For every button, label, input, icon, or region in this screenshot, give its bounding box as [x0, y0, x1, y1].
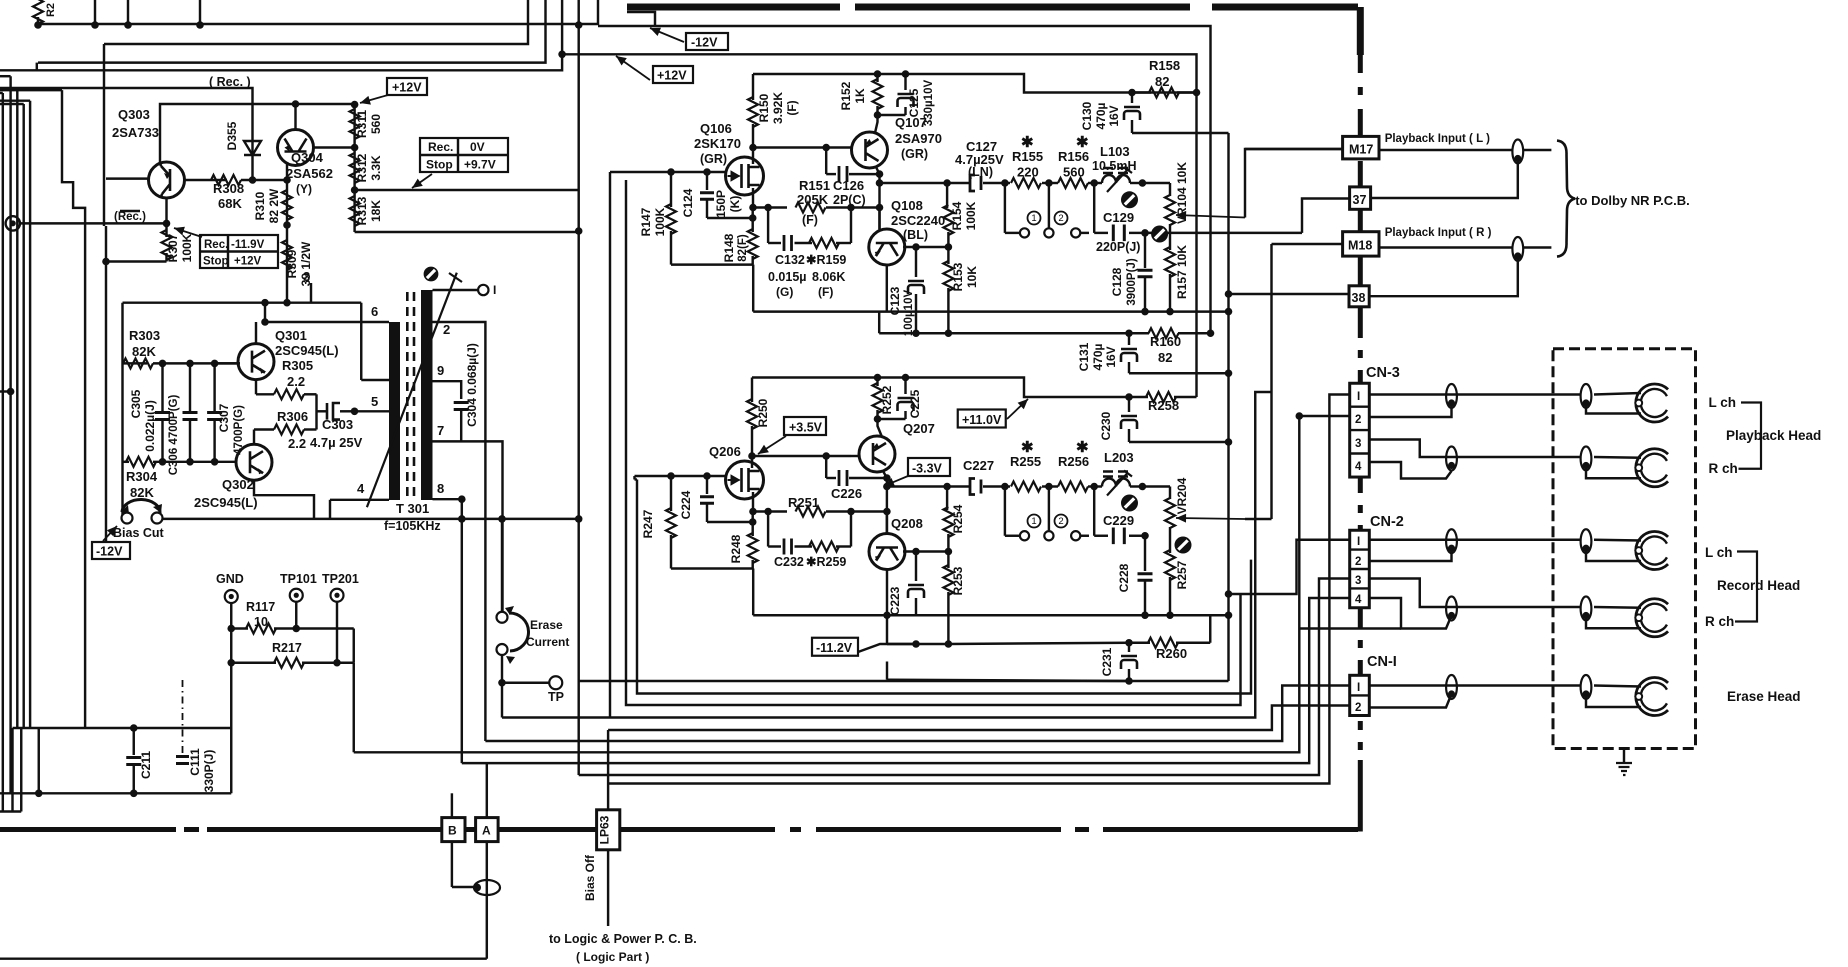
- bracket record: [1735, 552, 1757, 622]
- svg-text:Erase Head: Erase Head: [1727, 689, 1801, 704]
- arrow +12V: [616, 56, 650, 80]
- svg-text:M18: M18: [1348, 239, 1372, 253]
- resistor R148 82(F): [751, 208, 753, 233]
- svg-text:1: 1: [1031, 516, 1036, 527]
- node dot Q301 collector column: [261, 299, 269, 307]
- resistor R305 2.2: [256, 393, 274, 395]
- svg-text:R160: R160: [1150, 334, 1181, 349]
- wire A column: [486, 769, 488, 818]
- wire head lower lead from inner shield: [1586, 694, 1641, 707]
- svg-text:VR204: VR204: [1175, 477, 1189, 514]
- input terminal ring: [6, 216, 20, 230]
- svg-text:( Logic Part ): ( Logic Part ): [576, 950, 649, 964]
- svg-text:2SA733: 2SA733: [112, 125, 159, 140]
- svg-text:R309: R309: [285, 249, 299, 278]
- oval terminal: [474, 880, 500, 895]
- svg-text:R150: R150: [757, 93, 771, 122]
- svg-text:Stop: Stop: [426, 158, 453, 172]
- wire R313 bottom to bias column: [355, 231, 579, 233]
- vertical x104/x106: [103, 44, 105, 226]
- wire L203 to VR204: [1142, 485, 1170, 487]
- resistor R258: [1129, 396, 1148, 398]
- shield ellipse inner: [1581, 597, 1592, 621]
- wire Q108 collector down: [886, 265, 888, 312]
- resistor R254: [946, 487, 948, 511]
- resistor R158 82: [1132, 91, 1151, 93]
- svg-text:Record Head: Record Head: [1717, 578, 1800, 593]
- svg-text:C228: C228: [1117, 563, 1131, 592]
- arrow from table to stop node: [412, 174, 432, 188]
- wire C130 bottom to right column: [1132, 132, 1229, 134]
- svg-text:to Logic & Power P. C. B.: to Logic & Power P. C. B.: [549, 932, 697, 946]
- transformer T301 left bar: [389, 322, 400, 500]
- svg-text:R147: R147: [639, 207, 653, 236]
- wire Q302 collector to R306: [253, 430, 255, 445]
- wire CN-2 pin1 left feed: [1229, 540, 1350, 594]
- arrow +11.0V: [1007, 399, 1028, 419]
- svg-text:R252: R252: [880, 385, 894, 414]
- svg-text:3: 3: [1355, 575, 1361, 587]
- resistor R253: [947, 552, 949, 569]
- wire R260 node line: [886, 662, 888, 680]
- svg-text:-11.9V: -11.9V: [231, 239, 265, 251]
- node dot on left vertical: [7, 388, 15, 396]
- wire head lower lead from inner shield: [1586, 548, 1641, 561]
- svg-text:R151: R151: [799, 178, 830, 193]
- svg-text:10.5mH: 10.5mH: [1092, 159, 1136, 173]
- svg-text:R258: R258: [1148, 398, 1179, 413]
- shield ellipse outer: [1446, 529, 1457, 553]
- svg-text:C126: C126: [833, 178, 864, 193]
- svg-text:10K: 10K: [965, 266, 979, 288]
- wire vertical x579 (bias line): [577, 0, 579, 775]
- svg-text:470µ: 470µ: [1091, 343, 1105, 370]
- wire CN-1 pin2 to shield: [1369, 694, 1451, 708]
- svg-text:Q106: Q106: [700, 121, 732, 136]
- label -12V box (amp): [686, 33, 728, 50]
- capacitor C226: [825, 456, 827, 478]
- svg-text:100K: 100K: [180, 233, 194, 262]
- svg-text:220P(J): 220P(J): [1096, 240, 1140, 254]
- wire head upper lead: [1594, 393, 1641, 395]
- svg-text:+12V: +12V: [657, 69, 687, 83]
- wire R117/R217 right link: [353, 629, 355, 663]
- svg-text:Erase: Erase: [530, 618, 563, 632]
- svg-text:R158: R158: [1149, 58, 1180, 73]
- shield ellipse outer: [1446, 384, 1457, 408]
- wire 38 right return: [1369, 256, 1518, 296]
- svg-text:CN-I: CN-I: [1367, 654, 1397, 670]
- svg-text:C226: C226: [831, 486, 862, 501]
- capacitor C305 0.022u(J): [161, 363, 163, 412]
- wire record R return: [1369, 598, 1451, 629]
- wire T301 pin4 line: [330, 499, 389, 501]
- svg-text:(LN): (LN): [968, 165, 993, 179]
- resistor R248: [751, 512, 753, 537]
- svg-text:2: 2: [1058, 516, 1063, 527]
- resistor R151: [753, 206, 787, 208]
- svg-text:L203: L203: [1104, 450, 1134, 465]
- svg-text:(BL): (BL): [903, 228, 928, 242]
- svg-text:1: 1: [1031, 213, 1036, 224]
- svg-text:L ch: L ch: [1705, 545, 1733, 560]
- svg-text:2SC945(L): 2SC945(L): [275, 343, 339, 358]
- resistor R217: [231, 662, 276, 664]
- svg-text:2SA970: 2SA970: [895, 131, 942, 146]
- wire M18 right to Dolby: [1379, 246, 1551, 248]
- ground symbol under heads box: [1623, 749, 1625, 764]
- resistor R250: [751, 378, 753, 403]
- svg-text:2SC2240: 2SC2240: [891, 213, 945, 228]
- svg-text:TP201: TP201: [322, 572, 359, 586]
- connector 37: [1350, 187, 1371, 209]
- label +11.0V box: [958, 410, 1006, 428]
- capacitor C126 2P(C): [825, 148, 827, 175]
- wire Q206 gate line: [635, 475, 726, 477]
- resistor R252: [876, 378, 878, 387]
- svg-text:150P: 150P: [714, 190, 728, 218]
- resistor R154 100K: [946, 183, 948, 208]
- wire Q206 source down: [752, 492, 754, 512]
- svg-text:16V: 16V: [1104, 346, 1118, 367]
- resistor R255 220: [1005, 485, 1010, 487]
- ground bus corner up to CN column: [1358, 762, 1363, 832]
- wire left vertical bundle: [9, 76, 11, 793]
- svg-text:Playback Input ( L ): Playback Input ( L ): [1385, 133, 1490, 145]
- wire left staircase: [62, 90, 85, 728]
- svg-text:R117: R117: [246, 600, 275, 614]
- arrow -12V to bias cut: [103, 526, 117, 541]
- transformer T301 right bar: [421, 290, 433, 500]
- svg-text:C304 0.068µ(J): C304 0.068µ(J): [465, 343, 479, 427]
- svg-text:R304: R304: [126, 469, 158, 484]
- svg-text:2: 2: [443, 322, 450, 337]
- shield ellipse inner: [1581, 529, 1592, 553]
- wire bundle line 8: [462, 598, 1350, 763]
- record head L channel: [1635, 532, 1668, 570]
- svg-text:C130: C130: [1080, 101, 1094, 130]
- wire Q303 emitter down: [165, 198, 167, 223]
- connector A: [476, 818, 499, 842]
- shield ellipse L: [1512, 140, 1523, 164]
- capacitor C304 0.068u(J): [454, 403, 469, 410]
- circled 2: [1055, 212, 1068, 225]
- connector CN-1: [1350, 675, 1370, 715]
- screw symbol amp2 b: [1175, 537, 1192, 554]
- svg-text:C129: C129: [1103, 210, 1134, 225]
- wire TP201 down: [336, 602, 338, 663]
- wire stop node to bias column: [355, 189, 579, 191]
- svg-text:R257: R257: [1175, 560, 1189, 589]
- svg-text:R153: R153: [951, 262, 965, 291]
- wire Q208 base down: [886, 512, 888, 535]
- svg-text:+9.7V: +9.7V: [464, 158, 496, 172]
- svg-text:R305: R305: [282, 358, 313, 373]
- wire pin8 bias continues: [462, 518, 579, 520]
- wire head upper lead: [1594, 606, 1641, 609]
- svg-text:Q206: Q206: [709, 444, 741, 459]
- svg-text:R156: R156: [1058, 149, 1089, 164]
- wire record L return to CN-2 pin2: [1369, 548, 1451, 561]
- arrow +3.5V: [758, 436, 786, 454]
- inductor L203: [1094, 485, 1102, 487]
- wire VR104 wiper to M17: [1245, 149, 1343, 218]
- transistor Q107 2SA970: [852, 132, 888, 168]
- capacitor C228: [1144, 536, 1146, 571]
- capacitor C123 100u10V: [915, 247, 917, 277]
- wire bottom node y793: [0, 792, 231, 794]
- svg-text:R254: R254: [951, 504, 965, 533]
- wire stubs to top edge: [94, 0, 96, 25]
- svg-text:2SA562: 2SA562: [286, 166, 333, 181]
- wire Q107 base: [851, 146, 853, 148]
- svg-text:A: A: [482, 824, 491, 838]
- svg-text:3: 3: [1355, 438, 1361, 450]
- brace to Dolby: [1557, 141, 1575, 257]
- wire Q301 collector: [255, 322, 257, 344]
- wire Q208 collector down: [886, 570, 888, 645]
- capacitor C124 150P(K): [706, 172, 708, 190]
- wire C129 to 37-box net: [1145, 232, 1302, 234]
- svg-text:+11.0V: +11.0V: [962, 413, 1002, 427]
- resistor R147 100K: [670, 172, 672, 207]
- wire head upper lead: [1594, 456, 1641, 459]
- fet Q206: [726, 461, 764, 499]
- wire R160 node line: [878, 312, 880, 334]
- svg-text:GND: GND: [216, 572, 244, 586]
- svg-text:R154: R154: [950, 201, 964, 230]
- wire playback R return: [1369, 462, 1451, 479]
- svg-text:Stop: Stop: [203, 256, 229, 268]
- svg-text:8.06K: 8.06K: [812, 270, 845, 284]
- resistor R117 10: [231, 627, 248, 629]
- circled 2 amp2: [1055, 515, 1068, 528]
- svg-text:B: B: [448, 824, 457, 838]
- svg-text:Q301: Q301: [275, 328, 307, 343]
- svg-text:-11.2V: -11.2V: [816, 641, 853, 655]
- svg-text:(F): (F): [802, 213, 818, 227]
- svg-text:✱R159: ✱R159: [806, 253, 846, 267]
- node dot +12V rail: [558, 51, 566, 59]
- wire bundle line 1: [579, 680, 1229, 682]
- svg-text:-12V: -12V: [691, 36, 718, 50]
- wire Q108 emitter right: [903, 246, 948, 248]
- wire CN-3 pin1 to head: [1369, 393, 1580, 395]
- svg-text:C111: C111: [188, 748, 202, 776]
- bias cut switch: [122, 513, 133, 524]
- svg-text:18K: 18K: [369, 200, 383, 222]
- svg-text:TP101: TP101: [280, 572, 317, 586]
- svg-text:2: 2: [1355, 702, 1361, 714]
- shield ellipse inner: [1581, 675, 1592, 699]
- bus top thick dashed: [627, 4, 1358, 11]
- wire oscillator box left: [121, 303, 123, 518]
- label -12V box (bias): [92, 542, 130, 559]
- capacitor C225: [904, 378, 906, 395]
- capacitor C130 470u 16V: [1131, 93, 1133, 104]
- resistor R310 82 2W: [286, 180, 288, 225]
- svg-text:2: 2: [1058, 213, 1063, 224]
- svg-text:R256: R256: [1058, 454, 1089, 469]
- wire B column: [451, 793, 453, 817]
- capacitor C303 4.7u 25V electrolytic: [317, 410, 328, 412]
- svg-text:5: 5: [371, 394, 378, 409]
- svg-text:4: 4: [1355, 461, 1362, 473]
- arrow -12V: [650, 28, 684, 42]
- wire R305 to C303 node: [315, 394, 317, 429]
- svg-text:LP63: LP63: [598, 815, 612, 844]
- capacitor C223: [915, 552, 917, 582]
- bus top corner to CN column: [1357, 7, 1364, 55]
- wire bundle line 4: [502, 392, 1272, 718]
- wire bias-cut column down: [461, 519, 463, 763]
- svg-text:(F): (F): [818, 285, 833, 299]
- svg-text:I: I: [1357, 682, 1360, 694]
- svg-text:16V: 16V: [1107, 105, 1121, 126]
- connector M17: [1343, 136, 1379, 159]
- shield ellipse R: [1512, 237, 1523, 261]
- svg-text:( Rec. ): ( Rec. ): [209, 75, 251, 89]
- fet Q106 2SK170: [726, 157, 764, 195]
- svg-text:2: 2: [1355, 556, 1361, 568]
- transformer adjust slash: [367, 273, 457, 508]
- svg-text:68K: 68K: [218, 196, 242, 211]
- svg-text:R313: R313: [355, 196, 369, 225]
- svg-text:560: 560: [1063, 165, 1085, 180]
- resistor R150 3.92K: [752, 74, 754, 100]
- wire TP101 down: [295, 602, 297, 629]
- resistor R311 560: [353, 104, 355, 148]
- wire left bottom corner: [0, 810, 21, 812]
- svg-text:100K: 100K: [653, 207, 667, 236]
- arrow +12V to node: [360, 95, 388, 103]
- feedback loop C232 R259: [767, 512, 769, 547]
- wire amp2 top rail: [752, 378, 1129, 398]
- wire rail y63: [38, 0, 546, 63]
- resistor R313 18K: [353, 190, 355, 232]
- wire GND down: [230, 603, 232, 793]
- voltage table Rec -11.9V / Stop +12V: [200, 235, 278, 268]
- capacitor C131 470u 16V: [1128, 333, 1130, 345]
- resistor R155 220: [1005, 182, 1010, 184]
- test point TP101: [290, 589, 303, 602]
- wire oscillator box right: [360, 303, 362, 380]
- svg-text:Bias Cut: Bias Cut: [113, 526, 165, 540]
- svg-text:3.92K: 3.92K: [771, 92, 785, 124]
- capacitor C230: [1128, 397, 1130, 412]
- node junction dots on -12V rail: [34, 21, 42, 29]
- svg-text:f=105KHz: f=105KHz: [384, 519, 441, 533]
- capacitor C231: [1128, 643, 1130, 652]
- wire head lower lead from inner shield: [1586, 403, 1641, 414]
- svg-text:R248: R248: [729, 534, 743, 563]
- svg-text:C227: C227: [963, 458, 994, 473]
- svg-text:(K): (K): [728, 196, 742, 213]
- svg-text:C132: C132: [775, 253, 805, 267]
- label +3.5V box: [784, 417, 826, 435]
- resistor R303 82K: [123, 362, 148, 364]
- svg-text:C306 4700P(G): C306 4700P(G): [168, 395, 180, 476]
- svg-text:Q303: Q303: [118, 107, 150, 122]
- resistor R247: [670, 476, 672, 511]
- svg-text:220: 220: [1017, 165, 1039, 180]
- transistor Q303 base wire R308: [185, 179, 228, 181]
- connector B: [442, 818, 465, 842]
- resistor R156 560: [1049, 182, 1058, 184]
- svg-text:+3.5V: +3.5V: [789, 421, 823, 435]
- transistor Q208: [869, 534, 905, 570]
- wire Q303 collector top rail: [160, 104, 355, 165]
- CN column thick vertical: [1358, 55, 1363, 762]
- svg-text:3.3K: 3.3K: [369, 155, 383, 181]
- shield ellipse outer: [1446, 675, 1457, 699]
- wire (Rec.bar) node: [20, 222, 167, 224]
- label +12V box (amp): [653, 66, 693, 83]
- wire bundle line 6: [485, 686, 1349, 742]
- svg-text:0V: 0V: [470, 140, 485, 154]
- resistor R309 39 1/2W: [286, 225, 288, 303]
- connector CN-2: [1350, 530, 1370, 608]
- wire L103 to VR104: [1142, 182, 1170, 184]
- svg-text:82K: 82K: [132, 344, 156, 359]
- svg-text:C303: C303: [322, 417, 353, 432]
- wire C211 box top: [13, 727, 232, 729]
- potentiometer VR204: [1169, 487, 1171, 500]
- svg-text:R217: R217: [272, 641, 302, 655]
- wire bundle line 9: [579, 579, 1350, 776]
- svg-text:Q108: Q108: [891, 198, 923, 213]
- svg-text:C211: C211: [139, 751, 153, 779]
- svg-text:R310: R310: [253, 191, 267, 220]
- switch contacts amp2: [1004, 487, 1006, 536]
- wire Q304 emitter to R311 node: [314, 146, 355, 148]
- wire amp1 gate column: [609, 172, 611, 718]
- inductor L103 10.5mH: [1094, 182, 1102, 184]
- connector CN-3: [1350, 383, 1370, 477]
- wire T301 pin7: [433, 441, 503, 617]
- svg-text:R247: R247: [641, 509, 655, 538]
- capacitor C227: [970, 479, 981, 495]
- svg-text:I: I: [1357, 391, 1360, 403]
- svg-text:4.7µ 25V: 4.7µ 25V: [310, 435, 363, 450]
- wire M17 left (from amp1): [1245, 148, 1343, 150]
- wire T301 pin8: [433, 498, 462, 500]
- capacitor C127 4.7u25V (LN): [970, 175, 981, 191]
- transistor Q304 2SA562: [278, 130, 314, 166]
- svg-text:C229: C229: [1103, 513, 1134, 528]
- wire amp1 lower-left rail: [671, 263, 753, 265]
- dashed heads enclosure box: [1553, 349, 1696, 749]
- svg-text:R250: R250: [756, 398, 770, 427]
- wire Q106 drain: [752, 148, 754, 165]
- svg-text:C231: C231: [1100, 647, 1114, 676]
- svg-text:C305: C305: [129, 389, 143, 418]
- svg-text:T 301: T 301: [396, 501, 429, 516]
- transistor Q301 2SC945(L): [238, 344, 274, 380]
- voltage table Rec 0V / Stop +9.7V: [420, 138, 508, 172]
- wire oscillator box top: [123, 301, 362, 303]
- svg-text:2.2: 2.2: [287, 374, 305, 389]
- wire Q208 emitter right: [903, 550, 948, 552]
- wire +12V rail (right) y54: [562, 54, 1196, 397]
- wire amp2 lower-left rail: [671, 567, 753, 569]
- wire Q303 base left: [106, 177, 149, 179]
- wire CN-1 pin1 to head: [1369, 684, 1580, 686]
- terminal pin 1: [433, 289, 479, 291]
- svg-text:100K: 100K: [964, 201, 978, 230]
- capacitor C229: [1094, 535, 1108, 537]
- wire TP201 net down: [353, 663, 355, 753]
